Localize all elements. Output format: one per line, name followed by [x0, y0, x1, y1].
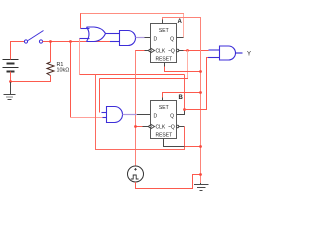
wire QB net horizontal: [80, 74, 185, 76]
wire RESET B to right bus: [185, 146, 201, 148]
junction resistor top: [49, 40, 52, 43]
wire SET A to right bus: [162, 17, 164, 20]
and gate U3: [102, 107, 123, 123]
wire AND2 output to D of B: [123, 114, 138, 116]
pin bubble notQ B: [176, 125, 184, 127]
switch S1: [24, 31, 43, 44]
junction notQA: [186, 49, 189, 52]
wire QB to Y gate lower input: [185, 58, 209, 110]
svg-text:10kΩ: 10kΩ: [57, 67, 70, 73]
ground under battery: [4, 82, 16, 100]
wire OR output to AND input: [106, 33, 120, 35]
svg-text:D: D: [154, 113, 158, 119]
svg-text:Q: Q: [170, 113, 174, 119]
pin stub Q B: [177, 110, 185, 115]
pin stub Q A: [177, 37, 184, 39]
pin stub CLK A with circle: [145, 49, 152, 51]
flip-flop A box: [151, 24, 177, 63]
junction bus set B: [199, 91, 202, 94]
svg-text:RESET: RESET: [155, 57, 172, 63]
wire SET A horizontal: [163, 17, 202, 19]
pin stub SET A: [162, 20, 164, 24]
svg-text:Q: Q: [170, 36, 174, 42]
junction node X branch: [69, 40, 72, 43]
wire bottom node to resistor R1 bottom: [11, 76, 51, 82]
junction bottom node: [9, 80, 12, 83]
and gate U2: [120, 31, 136, 46]
wire QA feedback horizontal: [80, 13, 184, 15]
wire notQA down to AND2 input: [187, 51, 189, 79]
svg-text:~Q: ~Q: [168, 49, 175, 55]
wire clock bottom to ground bus: [136, 175, 201, 189]
or gate U1: [80, 27, 106, 42]
pin stub RESET A: [164, 63, 166, 67]
svg-text:SET: SET: [159, 105, 169, 111]
svg-text:SET: SET: [159, 28, 169, 34]
wire notQA to Y gate input: [184, 50, 209, 52]
wire notQA horizontal to AND2: [100, 78, 189, 80]
junction bus reset A: [199, 70, 202, 73]
wire rail blue stub into AND1: [110, 41, 120, 43]
ground right: [194, 183, 209, 191]
wire SET B to right bus: [163, 93, 201, 98]
wire QB to OR input vertical: [79, 39, 81, 75]
wire CLK B to clock line: [136, 126, 143, 128]
pin stub RESET B: [164, 139, 185, 147]
wire notQA down into AND2 input: [99, 79, 101, 113]
wire QA feedback down to OR input: [80, 14, 82, 29]
wire resistor R1 top lead: [50, 42, 52, 63]
wire switch to AND1 rail: [43, 41, 111, 43]
pin stub CLK B with circle: [143, 125, 152, 127]
junction QB: [183, 108, 186, 111]
junction clock CLK B: [134, 125, 137, 128]
svg-text:~Q: ~Q: [168, 125, 175, 131]
wire node X down to AND2 input: [70, 42, 72, 118]
wire QA feedback top: [183, 13, 185, 38]
clock source V2: [128, 166, 144, 182]
wire RESET A to right bus: [165, 67, 201, 72]
svg-text:A: A: [178, 19, 183, 25]
wire AND1 output to D of A: [136, 37, 145, 39]
pin stub D B: [137, 114, 151, 116]
pin bubble notQ A: [176, 49, 183, 51]
wire battery top to switch: [11, 42, 25, 60]
wire X branch to AND2 lower input: [71, 117, 103, 119]
wire right bus vertical: [200, 18, 202, 184]
and gate U4 output Y: [208, 46, 236, 60]
wire QB vertical to junction: [184, 75, 186, 110]
wire CLK A horizontal: [136, 50, 145, 52]
wire CLK A from clock line: [135, 50, 137, 166]
wire battery bottom to ground: [10, 72, 12, 83]
svg-text:B: B: [179, 95, 184, 101]
svg-text:D: D: [154, 36, 158, 42]
battery V1: [3, 60, 19, 72]
resistor R1: [47, 62, 54, 76]
wire lower branch line: [96, 75, 185, 150]
junction bus reset B: [199, 145, 202, 148]
wire Y gate output: [236, 52, 243, 54]
svg-text:CLK: CLK: [156, 125, 166, 131]
svg-text:RESET: RESET: [155, 132, 172, 138]
svg-text:Y: Y: [247, 51, 251, 57]
pin stub D A: [145, 37, 151, 39]
svg-text:CLK: CLK: [156, 49, 166, 55]
flip-flop B box: [151, 101, 177, 139]
pin stub SET B: [162, 98, 164, 101]
junction bus clock return: [199, 173, 202, 176]
wire notQB down to reset line: [184, 127, 186, 147]
